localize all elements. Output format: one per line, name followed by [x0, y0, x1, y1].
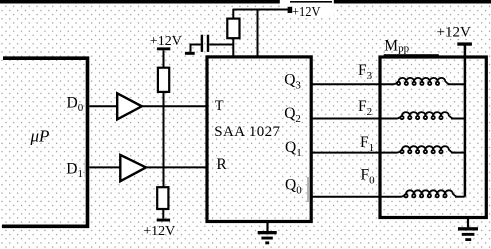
- wire L0 to rail: [455, 196, 465, 198]
- resistor R2: [158, 68, 169, 92]
- svg-text:+12V: +12V: [150, 34, 182, 49]
- resistor R1 lead top: [232, 9, 234, 19]
- wire buffer to R input: [146, 166, 206, 168]
- wire rail R2 to R3: [163, 92, 165, 188]
- wire buffer to T input: [142, 105, 206, 107]
- svg-text:+12V: +12V: [437, 24, 471, 40]
- wire D1 to buffer: [89, 166, 120, 168]
- wire capacitor to ground: [191, 45, 201, 52]
- svg-text:μP: μP: [30, 127, 50, 146]
- resistor R1 lead bottom: [232, 38, 234, 57]
- svg-text:R: R: [216, 156, 227, 173]
- power +12V bar (top of pull rail): [157, 47, 170, 50]
- wire L2 to rail: [451, 118, 465, 120]
- motor Mpp box: [380, 57, 486, 218]
- IC SAA 1027 box: [207, 57, 311, 222]
- pin mark Q0: [307, 177, 308, 202]
- wire supply to chip pin: [257, 10, 259, 57]
- ground bar (capacitor): [185, 52, 195, 55]
- svg-text:+12V: +12V: [292, 5, 321, 20]
- net +12V overline: [290, 1, 332, 3]
- winding L2: [398, 112, 454, 119]
- wire capacitor to R1 lead: [209, 44, 233, 46]
- ground (motor): [467, 219, 469, 227]
- capacitor C1 plates: [201, 35, 203, 52]
- microprocessor box: [2, 58, 88, 226]
- winding L1: [398, 146, 454, 153]
- wire rail bar to R2: [163, 50, 165, 67]
- wire D0 to buffer: [89, 105, 117, 107]
- wire R3 to bottom bar: [162, 209, 164, 219]
- wire Q1 to motor: [311, 152, 398, 154]
- resistor R1: [227, 19, 239, 39]
- wire L1 to rail: [451, 152, 465, 154]
- wire Q2 to motor: [311, 118, 398, 120]
- winding L3: [394, 78, 450, 85]
- power +12V bar (bottom): [157, 219, 170, 222]
- wire +12V rail right: [464, 45, 467, 197]
- wire Q0 to motor: [311, 196, 402, 198]
- resistor R3: [157, 187, 168, 209]
- junction dot top supply: [288, 7, 293, 13]
- underline Mpp: [384, 54, 439, 56]
- power +12V bar right: [457, 42, 472, 45]
- buffer U2 (D1): [120, 155, 146, 181]
- svg-text:+12V: +12V: [143, 224, 175, 239]
- svg-text:SAA 1027: SAA 1027: [214, 124, 280, 140]
- wire L3 to rail: [448, 83, 465, 85]
- wire Q3 to motor: [311, 83, 394, 85]
- wire top supply horizontal: [233, 9, 289, 11]
- ground (chip): [266, 223, 268, 232]
- pin mark D1: [85, 159, 86, 177]
- buffer U1 (D0): [117, 93, 142, 119]
- winding L0: [402, 190, 458, 197]
- svg-text:T: T: [215, 98, 224, 114]
